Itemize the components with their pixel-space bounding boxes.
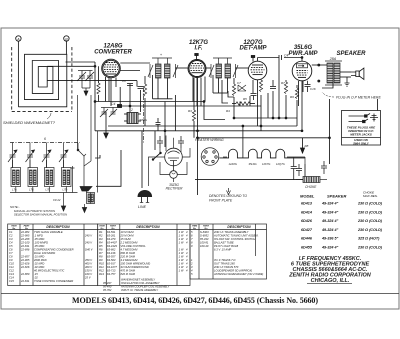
trimmers C5 C6 grid	[77, 71, 94, 96]
svg-text:63-591: 63-591	[107, 230, 116, 234]
svg-text:SHIELDED WAVEMAGNET?: SHIELDED WAVEMAGNET?	[3, 120, 56, 125]
svg-text:R4: R4	[99, 240, 103, 244]
svg-text:85-333: 85-333	[200, 237, 209, 241]
v4 plate to transformer	[312, 64, 327, 66]
svg-text:63-1077: 63-1077	[107, 265, 117, 269]
svg-text:49-336 5": 49-336 5"	[321, 237, 339, 241]
svg-text:R8: R8	[99, 254, 103, 258]
svg-text:C15: C15	[9, 279, 14, 283]
svg-text:95-762: 95-762	[103, 288, 112, 292]
padder cap	[156, 122, 161, 124]
top line converter to T1	[120, 62, 150, 64]
junction dots extra	[94, 101, 96, 103]
svg-text:.05 MFD: .05 MFD	[34, 237, 44, 241]
svg-text:R13: R13	[99, 272, 104, 276]
svg-text:22-896: 22-896	[20, 247, 30, 251]
svg-text:WAVEMAGNET ASSEMBLY: WAVEMAGNET ASSEMBLY	[121, 277, 155, 281]
wavemagnet loop spiral	[18, 54, 66, 107]
svg-text:63-557: 63-557	[107, 254, 116, 258]
svg-text:22-100: 22-100	[20, 240, 30, 244]
svg-text:6D427: 6D427	[301, 228, 313, 232]
svg-text:C7: C7	[9, 251, 13, 255]
cap C8	[127, 84, 133, 86]
svg-text:R11: R11	[99, 265, 104, 269]
svg-text:C3: C3	[9, 237, 13, 241]
svg-text:150 OHM WIREWOUND: 150 OHM WIREWOUND	[121, 261, 151, 265]
svg-text:DUAL 100 MMFD: DUAL 100 MMFD	[34, 251, 55, 255]
wire A down	[17, 41, 19, 107]
svg-text:325 Ω (HOT): 325 Ω (HOT)	[358, 237, 380, 241]
svg-text:2: 2	[130, 108, 133, 112]
svg-text:R7: R7	[99, 251, 103, 255]
heater socket circle	[201, 148, 219, 166]
rect top leads	[159, 148, 161, 152]
shield dashed bottom	[12, 111, 72, 113]
svg-text:RECTIFIER: RECTIFIER	[166, 187, 184, 191]
svg-text:INPUT I.F. TRANS ASSEMBLY: INPUT I.F. TRANS ASSEMBLY	[121, 288, 158, 292]
resistor R3 vertical	[192, 110, 195, 121]
svg-text:6.3 V .15 AMP: 6.3 V .15 AMP	[214, 247, 231, 251]
svg-text:PLUG IN O.P METER HERE: PLUG IN O.P METER HERE	[336, 96, 381, 100]
svg-text:25 V: 25 V	[84, 275, 91, 279]
svg-text:R2: R2	[99, 233, 103, 237]
svg-text:COMPENSATING CONDENSER: COMPENSATING CONDENSER	[34, 247, 74, 251]
svg-text:400 V: 400 V	[85, 265, 92, 269]
svg-text:1 W: 1 W	[179, 230, 184, 234]
svg-text:C13: C13	[9, 272, 14, 276]
band switch bank	[8, 88, 144, 213]
svg-text:C5: C5	[9, 244, 13, 248]
model table	[300, 191, 383, 250]
cap C16	[305, 81, 311, 92]
trimmer pair C3	[100, 108, 117, 118]
svg-text:IN I.F TRANS 7 Ω: IN I.F TRANS 7 Ω	[214, 258, 235, 262]
svg-text:BALLAST TUBE: BALLAST TUBE	[214, 240, 234, 244]
svg-text:MODELS 6D413, 6D414, 6D426, 6D: MODELS 6D413, 6D414, 6D426, 6D427, 6D446…	[72, 296, 318, 305]
svg-text:S-6952: S-6952	[200, 233, 209, 237]
svg-text:R4: R4	[226, 109, 230, 113]
svg-text:28A: 28A	[329, 57, 337, 61]
svg-text:230 Ω (COLD): 230 Ω (COLD)	[357, 246, 383, 250]
on-off switch	[153, 153, 162, 161]
svg-text:R9: R9	[99, 258, 103, 262]
svg-text:450 V: 450 V	[85, 258, 92, 262]
tube lead drops V2	[192, 77, 194, 102]
svg-text:6D414: 6D414	[301, 210, 312, 214]
svg-text:680 M OHM: 680 M OHM	[121, 251, 136, 255]
svg-text:.100 MMFD: .100 MMFD	[34, 240, 48, 244]
svg-text:MODEL: MODEL	[300, 194, 315, 199]
trimmer 2	[26, 150, 35, 168]
svg-text:R6: R6	[99, 247, 103, 251]
svg-text:L7D: L7D	[63, 188, 68, 192]
svg-text:22-208: 22-208	[20, 237, 30, 241]
grid cap dot V3	[252, 57, 254, 62]
svg-text:1 W: 1 W	[179, 240, 184, 244]
choke	[296, 177, 327, 183]
svg-text:DENOTES GROUND TO: DENOTES GROUND TO	[209, 194, 247, 198]
terminal B	[64, 36, 69, 41]
svg-text:C8: C8	[122, 79, 126, 83]
AC plug	[138, 190, 152, 202]
svg-text:C# 22: C# 22	[53, 198, 61, 202]
table rows text col3	[190, 230, 263, 276]
svg-text:C4: C4	[111, 102, 115, 106]
svg-text:33 OHM WIREWOUND: 33 OHM WIREWOUND	[121, 265, 149, 269]
trimmer 4	[59, 150, 68, 168]
svg-text:C2: C2	[9, 233, 13, 237]
left line to plug	[149, 157, 165, 186]
trimmer 3	[42, 150, 51, 168]
svg-text:OSCILLATOR COIL ASSEMBLY: OSCILLATOR COIL ASSEMBLY	[121, 281, 160, 285]
svg-text:C10: C10	[9, 261, 14, 265]
resistor R1 grid	[98, 66, 100, 83]
svg-text:.15: .15	[34, 272, 38, 276]
svg-text:C4: C4	[284, 54, 288, 58]
resistor R9 vertical	[295, 88, 298, 98]
switch wedge	[80, 187, 92, 192]
svg-text:100 V: 100 V	[85, 272, 92, 276]
coil 1	[11, 168, 21, 192]
svg-text:10 M OHM: 10 M OHM	[121, 230, 135, 234]
svg-text:230 Ω (COLD): 230 Ω (COLD)	[357, 228, 383, 232]
ground note	[227, 188, 231, 195]
svg-text:63-713: 63-713	[107, 268, 116, 272]
svg-text:ANTENNA COUPLER COIL ASSEMBLY: ANTENNA COUPLER COIL ASSEMBLY	[120, 284, 170, 288]
svg-text:220 M OHM: 220 M OHM	[120, 254, 136, 258]
svg-text:35L6G: 35L6G	[249, 162, 257, 166]
resistor R2 vertical	[232, 84, 235, 96]
cap C10	[270, 87, 276, 89]
svg-text:DET-AMP: DET-AMP	[240, 46, 268, 52]
IF transformer T2	[209, 58, 238, 78]
svg-text:L7B: L7B	[29, 188, 34, 192]
svg-text:63-370: 63-370	[107, 237, 116, 241]
rect area caps C11 C13	[157, 136, 184, 148]
junction dots	[318, 64, 320, 66]
svg-text:1 W: 1 W	[179, 258, 184, 262]
line T2 to V3	[236, 67, 249, 69]
svg-text:230 Ω (COLD): 230 Ω (COLD)	[357, 202, 383, 206]
svg-text:LINE: LINE	[138, 205, 147, 209]
svg-text:MAX RES.: MAX RES.	[363, 194, 378, 198]
svg-text:S-8403: S-8403	[200, 230, 209, 234]
svg-text:3.3 MEGOHM: 3.3 MEGOHM	[121, 258, 139, 262]
svg-text:1 W: 1 W	[179, 261, 184, 265]
right feed verticals	[77, 95, 79, 150]
tube V4 pwr amp	[292, 61, 312, 81]
svg-text:230 Ω (COLD): 230 Ω (COLD)	[357, 210, 383, 214]
speaker leads	[322, 83, 333, 88]
svg-text:DESCRIPTION: DESCRIPTION	[46, 225, 70, 229]
svg-text:C11: C11	[9, 265, 14, 269]
svg-text:CHOKE: CHOKE	[305, 185, 317, 189]
plate line to right	[182, 148, 190, 157]
trimmer 1	[8, 150, 17, 168]
svg-text:63-196: 63-196	[107, 251, 116, 255]
svg-text:49-324 4": 49-324 4"	[321, 210, 339, 214]
svg-text:DESCRIPTION: DESCRIPTION	[227, 225, 251, 229]
svg-text:R8: R8	[305, 144, 309, 148]
bus y106	[120, 105, 261, 107]
bus dash-dot	[10, 142, 80, 144]
meter note box	[342, 111, 381, 146]
svg-text:ANTENNA WAVEMAGNET (ON 2 WIRE): ANTENNA WAVEMAGNET (ON 2 WIRE)	[213, 272, 263, 276]
resistor R1 vertical	[143, 84, 146, 96]
svg-text:49-324 4": 49-324 4"	[321, 228, 339, 232]
svg-text:1 W: 1 W	[179, 237, 184, 241]
table headers	[11, 225, 251, 230]
C12 heater cap	[291, 157, 297, 180]
svg-text:C9: C9	[9, 258, 13, 262]
svg-text:63-261: 63-261	[107, 233, 116, 237]
svg-text:12A8G: 12A8G	[229, 162, 237, 166]
svg-text:95-490: 95-490	[103, 284, 112, 288]
trimmer drops	[12, 143, 14, 151]
T2 lead drops	[218, 78, 220, 93]
tube lead drops V3	[257, 80, 259, 126]
IF transformer T1	[148, 52, 178, 78]
avc sub bus	[234, 117, 297, 119]
wire loop exit	[47, 65, 95, 67]
svg-text:49-324 4": 49-324 4"	[321, 219, 339, 223]
svg-text:150 V: 150 V	[85, 268, 92, 272]
cap C4 top	[279, 54, 288, 61]
svg-text:OUT TRANS 280: OUT TRANS 280	[214, 261, 235, 265]
svg-text:2000 MFD: 2000 MFD	[33, 258, 47, 262]
shield dashed left	[11, 47, 13, 112]
gang link dash-dot	[143, 88, 145, 143]
svg-text:AUTOMATIC TUNING UNIT ASSEM.: AUTOMATIC TUNING UNIT ASSEM.	[213, 233, 259, 237]
svg-text:6D413: 6D413	[301, 202, 313, 206]
wire vol to switch	[96, 150, 121, 186]
svg-text:TWO GANG VARIABLE: TWO GANG VARIABLE	[34, 230, 63, 234]
bus y126	[108, 125, 297, 127]
svg-text:PILOT LIGHT BULB: PILOT LIGHT BULB	[214, 244, 238, 248]
svg-text:R3: R3	[99, 237, 103, 241]
svg-text:FRONT PLATE: FRONT PLATE	[209, 199, 233, 203]
det step wiring	[222, 80, 228, 103]
svg-text:.05 MFD: .05 MFD	[34, 244, 44, 248]
svg-text:.02 MFD: .02 MFD	[34, 265, 44, 269]
svg-text:.1 MFD: .1 MFD	[34, 233, 43, 237]
tube V2 IF	[188, 60, 206, 78]
svg-text:820 M OHM: 820 M OHM	[121, 272, 136, 276]
terminal A	[16, 36, 21, 41]
zenith block	[288, 256, 372, 284]
svg-text:40 MFD ELECTROLYTIC: 40 MFD ELECTROLYTIC	[34, 268, 64, 272]
svg-text:12K7G: 12K7G	[262, 162, 270, 166]
svg-text:R9: R9	[290, 95, 294, 99]
svg-text:ON-OFF SW. CONTROL SWITCH: ON-OFF SW. CONTROL SWITCH	[214, 237, 255, 241]
svg-text:PWR.AMP: PWR.AMP	[289, 51, 319, 57]
svg-text:DESCRIPTION: DESCRIPTION	[136, 225, 160, 229]
bus y131	[95, 130, 303, 132]
pilot shunt box	[160, 162, 170, 175]
svg-text:63-917: 63-917	[107, 261, 116, 265]
caps C18 C17	[296, 161, 327, 176]
table rows text col1	[9, 230, 93, 283]
caption rule	[1, 293, 399, 295]
svg-text:100-40: 100-40	[200, 244, 209, 248]
coil 2	[28, 168, 38, 192]
line V2 to T2	[206, 67, 212, 69]
svg-text:49-324 4": 49-324 4"	[321, 246, 339, 250]
svg-text:C12: C12	[9, 268, 14, 272]
svg-text:HEATER WIRING: HEATER WIRING	[195, 138, 224, 142]
avc bus	[95, 101, 204, 103]
svg-text:1 W: 1 W	[179, 268, 184, 272]
svg-text:22-826: 22-826	[20, 265, 30, 269]
svg-text:5664 ONLY: 5664 ONLY	[353, 142, 370, 146]
tube lead drops V1	[105, 77, 107, 102]
svg-text:49-324 4": 49-324 4"	[321, 202, 339, 206]
svg-text:63-4429: 63-4429	[107, 244, 117, 248]
coil 3	[45, 168, 55, 192]
svg-text:L7A: L7A	[12, 188, 17, 192]
svg-text:22-905: 22-905	[20, 258, 30, 262]
svg-text:4.7 MEGOHM: 4.7 MEGOHM	[121, 247, 139, 251]
svg-text:63-862: 63-862	[107, 247, 116, 251]
pointer wavemagnet	[47, 113, 51, 119]
verticals mid area	[94, 62, 96, 131]
table rows text col2	[99, 230, 188, 292]
svg-text:15 OHM: 15 OHM	[121, 237, 132, 241]
svg-text:D40 V: D40 V	[85, 247, 93, 251]
speaker	[345, 68, 364, 86]
svg-text:A: A	[16, 37, 20, 41]
svg-text:12Q7G: 12Q7G	[276, 162, 285, 166]
bank bottom bus	[10, 192, 78, 194]
svg-text:6D426: 6D426	[301, 219, 313, 223]
heater right end	[287, 156, 305, 158]
svg-text:TONE CONTROL CONDENSER: TONE CONTROL CONDENSER	[34, 279, 73, 283]
svg-text:.01 MFD: .01 MFD	[34, 254, 44, 258]
cap C9	[251, 94, 257, 101]
svg-text:63-563: 63-563	[107, 258, 116, 262]
svg-text:SPEAKER: SPEAKER	[336, 51, 366, 57]
tube V1 converter	[102, 59, 121, 78]
parts table 3	[190, 224, 267, 279]
output transformer	[325, 57, 342, 85]
resistor R7 vertical	[284, 82, 287, 94]
svg-text:22-985: 22-985	[20, 233, 30, 237]
svg-text:470 M OHM: 470 M OHM	[121, 268, 136, 272]
rectifier label	[166, 183, 184, 191]
svg-text:1 W: 1 W	[179, 254, 184, 258]
svg-text:METER JACKS: METER JACKS	[350, 133, 372, 137]
heater filament string	[219, 149, 305, 158]
svg-text:20 M OHM: 20 M OHM	[120, 233, 135, 237]
main wire grid	[66, 54, 378, 196]
svg-text:22-857: 22-857	[20, 254, 30, 258]
line T1 to V2	[176, 67, 188, 69]
svg-text:2.2 MEGOHM: 2.2 MEGOHM	[120, 240, 139, 244]
svg-text:VOLUME CONTROL: VOLUME CONTROL	[121, 244, 147, 248]
svg-text:230 Ω (COLD): 230 Ω (COLD)	[357, 219, 383, 223]
line V3 to V4 top	[257, 58, 259, 62]
svg-text:95-497: 95-497	[103, 281, 112, 285]
parts table 2	[98, 224, 190, 286]
switch arm	[78, 150, 86, 156]
cap C2	[138, 87, 144, 89]
svg-text:1 W: 1 W	[179, 247, 184, 251]
b+ bus	[196, 137, 330, 139]
svg-text:C4: C4	[9, 240, 13, 244]
svg-text:1 W: 1 W	[179, 251, 184, 255]
svg-text:2ND I.F. TRANS ASSEMBLY: 2ND I.F. TRANS ASSEMBLY	[213, 230, 249, 234]
svg-text:C16: C16	[310, 87, 316, 91]
shield dashed right	[71, 47, 73, 112]
tube label 12A8G CONVERTER	[94, 40, 366, 57]
svg-text:R1: R1	[99, 230, 103, 234]
svg-text:.02 MFD: .02 MFD	[34, 261, 44, 265]
svg-text:22-826: 22-826	[20, 261, 30, 265]
svg-text:SPEAKER: SPEAKER	[327, 194, 346, 199]
svg-text:22-841: 22-841	[20, 279, 30, 283]
svg-text:CONVERTER: CONVERTER	[94, 50, 132, 56]
svg-text:6: 6	[44, 137, 46, 141]
svg-text:22-841: 22-841	[20, 244, 30, 248]
selector note	[10, 205, 68, 217]
T1 lead drops	[157, 78, 159, 99]
parts table 1	[8, 224, 98, 286]
bottom bus	[195, 179, 305, 181]
svg-text:I.F.: I.F.	[194, 46, 202, 52]
svg-text:C7: C7	[237, 81, 241, 85]
oscillator coil L4	[124, 108, 148, 124]
heater drop wire	[242, 126, 244, 158]
svg-text:1 W: 1 W	[179, 265, 184, 269]
svg-text:R3: R3	[188, 109, 192, 113]
svg-text:SELECTOR SHOWN MANUAL POSITION: SELECTOR SHOWN MANUAL POSITION	[14, 213, 68, 217]
svg-text:2ND I.F TRANS 570: 2ND I.F TRANS 570	[213, 265, 239, 269]
svg-text:6D446: 6D446	[301, 237, 313, 241]
pilot lamp	[170, 171, 178, 179]
svg-text:C14: C14	[9, 275, 14, 279]
svg-text:R5: R5	[99, 244, 103, 248]
rectifier tube V5	[149, 136, 306, 187]
svg-text:C8: C8	[9, 254, 13, 258]
svg-text:6D455: 6D455	[301, 246, 313, 250]
ground arrow right	[301, 148, 305, 153]
svg-text:22-880: 22-880	[20, 272, 30, 276]
cap C4 mica dark	[118, 105, 122, 108]
svg-text:LOUDSPEAKER 5Ω (APPROX): LOUDSPEAKER 5Ω (APPROX)	[214, 268, 252, 272]
tube V3 det-amp	[248, 61, 267, 80]
svg-text:C1: C1	[9, 230, 13, 234]
svg-text:R7: R7	[281, 81, 285, 85]
svg-text:22-984: 22-984	[20, 230, 30, 234]
svg-text:R5: R5	[243, 97, 247, 101]
svg-text:C6: C6	[9, 247, 13, 251]
svg-text:R10: R10	[99, 261, 104, 265]
svg-text:L7C: L7C	[46, 188, 51, 192]
resistor R6 vertical	[259, 80, 262, 92]
wire loop tap	[47, 80, 137, 82]
svg-text:400 V: 400 V	[85, 261, 92, 265]
svg-text:1 W: 1 W	[179, 233, 184, 237]
svg-text:.02: .02	[34, 275, 38, 279]
transformer to speaker	[340, 71, 351, 73]
svg-text:100-91: 100-91	[200, 240, 209, 244]
wire B down	[65, 41, 67, 54]
svg-text:63-757: 63-757	[107, 272, 116, 276]
antenna coil L1 right	[82, 193, 94, 213]
plus mark	[71, 166, 75, 170]
svg-text:63-4407: 63-4407	[107, 240, 117, 244]
ground arrow left mid	[105, 112, 107, 133]
